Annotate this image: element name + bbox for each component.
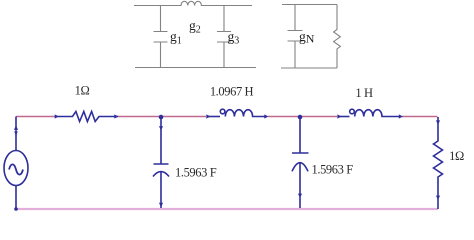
svg-text:1.5963 F: 1.5963 F xyxy=(312,163,354,177)
svg-text:1Ω: 1Ω xyxy=(449,149,464,163)
svg-text:1Ω: 1Ω xyxy=(75,84,90,98)
svg-text:1.0967 H: 1.0967 H xyxy=(210,85,254,99)
svg-text:1.5963 F: 1.5963 F xyxy=(175,166,217,180)
svg-text:gN: gN xyxy=(299,29,315,46)
svg-text:1 H: 1 H xyxy=(355,86,373,100)
